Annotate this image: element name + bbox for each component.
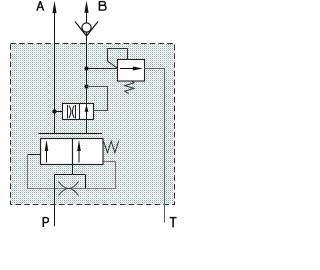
wire pilot staple from B to V2 right side — [87, 87, 108, 111]
relief valve RV1 body — [118, 60, 145, 82]
flow arrows in main valve V3 — [45, 140, 81, 163]
pilot line of RV1 — [108, 49, 128, 69]
spring of RV1 — [125, 81, 134, 94]
node junction on B line at relief tap — [84, 66, 88, 70]
node junction on B line at pilot staple — [84, 84, 88, 88]
wire relief valve inlet — [87, 68, 118, 70]
node junction on A line at V2 inlet — [52, 109, 56, 113]
port B label — [99, 1, 106, 10]
wire top connection line above main valve — [39, 133, 103, 135]
check valve V1 (ball in seat) — [75, 22, 98, 37]
wire gray pilot/drain loop under main valve — [28, 155, 116, 189]
pilot valve V2 body (2-position) — [63, 104, 94, 120]
orifice O1 (crossed arcs) — [59, 182, 79, 196]
relief valve RV1 flow arrow — [120, 67, 143, 71]
orifice symbol in V2 left position — [68, 105, 76, 119]
port B arrow — [84, 1, 88, 13]
wire V3 left pilot port — [28, 154, 41, 156]
wire main valve bottom feed — [55, 165, 86, 189]
wire port A vertical line — [54, 11, 56, 134]
manifold enclosure (dashed boundary with hatched fill) — [11, 44, 175, 205]
flow arrow in V2 right position — [85, 105, 89, 112]
wire relief outlet to tank T — [145, 69, 165, 223]
spring of V3 — [104, 141, 119, 152]
main valve V3 body (2-position) — [41, 139, 104, 165]
wire V2 inlet from A line — [55, 111, 63, 113]
wire port B vertical line (gap at check valve ball) — [86, 12, 88, 134]
port A label — [37, 1, 44, 11]
port A arrow — [52, 1, 56, 13]
wire port P riser — [54, 175, 56, 227]
port T label — [170, 218, 177, 228]
port P label — [43, 217, 48, 227]
